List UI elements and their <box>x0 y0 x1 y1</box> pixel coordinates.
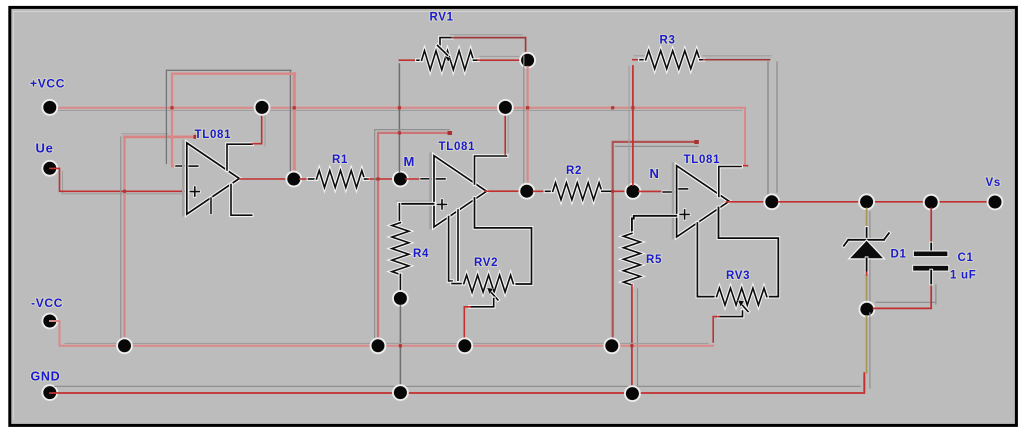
U1 V+ pin 7 <box>227 144 252 170</box>
svg-text:1 uF: 1 uF <box>950 270 976 282</box>
node U3 output <box>727 201 767 203</box>
svg-text:+VCC: +VCC <box>30 77 65 91</box>
svg-text:-VCC: -VCC <box>31 296 63 310</box>
svg-text:R4: R4 <box>413 248 429 260</box>
op-amp U2 TL081 <box>429 154 432 228</box>
wire +VCC rail <box>58 109 742 111</box>
node -VCC U1 supply <box>117 339 131 353</box>
svg-text:RV2: RV2 <box>474 257 498 269</box>
terminal Ue <box>43 161 57 175</box>
U1 offset null stub <box>210 198 213 214</box>
node RV1 right <box>520 53 534 67</box>
wire GND rail <box>55 385 860 387</box>
node U1 V+ junction <box>255 100 269 114</box>
node N <box>626 184 640 198</box>
wire node N up to R3 <box>628 66 630 186</box>
RV1 wiper arrow <box>440 38 452 45</box>
node GND R4 <box>393 385 407 399</box>
U3 offset null stub / RV3 left <box>697 223 716 297</box>
svg-text:R3: R3 <box>660 35 676 47</box>
node -VCC U2 supply <box>371 339 385 353</box>
U3 pin5 loop to RV3 right <box>719 208 779 297</box>
wire RV1 right terminal to node <box>480 55 519 57</box>
RV2 wiper arrow <box>489 290 498 300</box>
svg-text:GND: GND <box>31 370 61 384</box>
wire R4 node down to GND rail <box>399 306 401 388</box>
svg-text:TL081: TL081 <box>684 154 721 166</box>
U1 V- pin 4 <box>231 185 252 216</box>
node -VCC RV2 wiper <box>458 339 472 353</box>
svg-text:D1: D1 <box>891 249 907 261</box>
potentiometer RV2 <box>452 282 464 286</box>
potentiometer RV1 <box>399 59 417 61</box>
wire U1 output to R1 <box>300 178 309 180</box>
node D1 top <box>859 195 873 209</box>
wire crossing ticks <box>170 106 173 109</box>
wire node M to U2 inverting input <box>406 178 421 180</box>
U3 non-inverting input wire to R5 <box>632 216 676 234</box>
terminal GND <box>43 385 57 399</box>
RV3 wiper arrow <box>740 303 748 312</box>
svg-text:C1: C1 <box>958 252 974 264</box>
U3 V+ pin 7 <box>741 165 748 167</box>
terminal -VCC <box>43 314 57 328</box>
svg-text:R1: R1 <box>332 154 348 166</box>
svg-text:TL081: TL081 <box>439 141 476 153</box>
node GND R5 <box>625 386 639 400</box>
diode D1 zener <box>869 212 871 303</box>
U2 V+ pin 7 <box>475 156 507 184</box>
wire -VCC rail <box>65 342 708 344</box>
wire U3 V- supply from -VCC rail <box>613 142 697 342</box>
terminal +VCC <box>43 100 57 114</box>
node U2 output <box>485 190 521 192</box>
wire node N to U3 inverting input <box>639 190 663 192</box>
svg-text:TL081: TL081 <box>195 129 232 141</box>
wire R1 to node M <box>368 178 395 180</box>
svg-text:Ue: Ue <box>36 141 54 156</box>
terminal Vs <box>988 195 1002 209</box>
wire U2 output to R2 <box>534 190 546 192</box>
wire RV1 node down to U2 output node <box>523 56 525 188</box>
node C1 top <box>924 195 938 209</box>
U2 non-inverting input wire <box>399 202 434 206</box>
wire RV1 wiper top to right node <box>450 34 522 36</box>
svg-text:R5: R5 <box>646 254 662 266</box>
wire R5 down to GND rail <box>637 289 639 390</box>
svg-text:M: M <box>404 154 416 169</box>
resistor R4 <box>397 204 401 223</box>
potentiometer RV3 <box>717 288 767 305</box>
svg-text:RV1: RV1 <box>430 12 454 24</box>
wire U3 output to Vs <box>779 201 989 203</box>
node M <box>393 172 407 186</box>
svg-text:N: N <box>650 166 660 181</box>
resistor R1 <box>309 177 317 181</box>
resistor R3 <box>634 55 645 57</box>
wire D1 bottom node to GND rail <box>869 313 871 388</box>
svg-text:RV3: RV3 <box>726 270 750 282</box>
op-amp U1 TL081 <box>182 141 185 215</box>
wire R3 to U3 output node <box>703 55 771 57</box>
node R4 bottom <box>393 291 407 305</box>
node U1 output <box>240 178 289 180</box>
U2 offset null stubs <box>449 217 452 282</box>
resistor R5 <box>623 233 640 285</box>
wire U1 feedback loop output to inverting input <box>166 70 291 172</box>
wire U1 inverting input <box>176 165 186 168</box>
node D1 bottom <box>860 302 874 316</box>
wire Ue to U1 plus input <box>62 172 184 194</box>
wire RV3 wiper to -VCC rail end <box>719 311 743 317</box>
resistor R2 <box>546 189 553 193</box>
wire node M up to RV1 left terminal <box>398 64 400 172</box>
wire R2 to node N <box>613 190 628 192</box>
node -VCC U3 supply <box>605 339 619 353</box>
wire U1 V- supply from -VCC rail <box>120 137 122 342</box>
svg-text:R2: R2 <box>566 165 582 177</box>
wire U2 V- supply from -VCC rail <box>375 130 449 342</box>
svg-text:Vs: Vs <box>986 177 1001 189</box>
op-amp U3 TL081 <box>672 164 675 238</box>
U2 V- pin 4 loop to RV2 right <box>475 198 532 284</box>
wire D1 bottom to C1 bottom <box>876 285 936 304</box>
capacitor C1 <box>930 209 932 244</box>
wire RV2 wiper to -VCC rail <box>470 299 494 307</box>
node U2 V+ junction <box>498 100 512 114</box>
